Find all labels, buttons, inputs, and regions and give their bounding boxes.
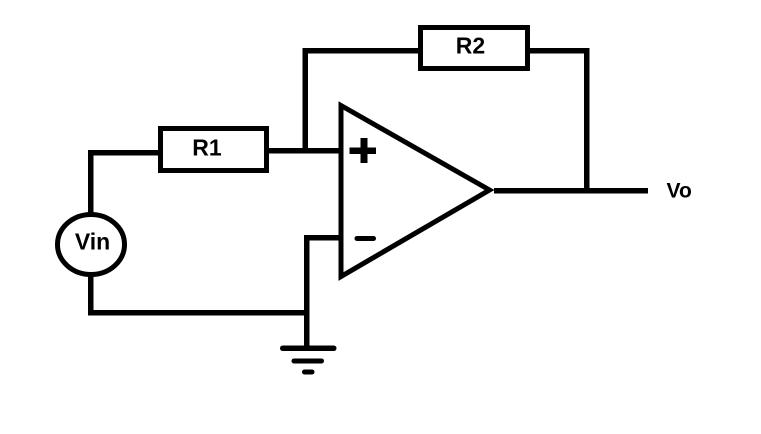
op-amp + input pin symbol <box>350 138 377 163</box>
wire: Vin top vertical (Vin to R1 input wire) <box>88 150 94 215</box>
wire: feedback right vertical (R2 down to output node) <box>584 48 590 193</box>
wire: horizontal Vin to R1 left terminal <box>88 150 161 156</box>
svg-text:R2: R2 <box>456 33 485 59</box>
wire: horizontal R1 right terminal to op-amp + input <box>266 148 341 154</box>
voltage source Vin <box>58 215 125 275</box>
svg-text:Vin: Vin <box>75 229 110 255</box>
svg-text:Vo: Vo <box>667 180 692 203</box>
wire: inverting input horizontal (ground net to op-amp - input) <box>304 235 341 241</box>
ground <box>280 346 337 375</box>
resistor R2 <box>421 28 528 69</box>
resistor R1 <box>161 129 267 171</box>
wire: top horizontal from R2 right terminal to right feedback vertical <box>527 48 590 54</box>
wire: top horizontal from feedback node to R2 left terminal <box>303 48 421 54</box>
svg-text:R1: R1 <box>192 135 222 161</box>
op-amp U1 (triangle) <box>341 106 490 277</box>
wire: ground vertical (inverting node down to ground symbol) <box>304 235 310 349</box>
wire: Vin bottom vertical <box>88 274 94 316</box>
wire: feedback left vertical (node between R1 and R2, down to + input wire) <box>303 48 309 154</box>
wire: bottom horizontal (Vin bottom to ground vertical) <box>88 310 310 316</box>
wire: output horizontal (op-amp output to Vo) <box>494 188 648 194</box>
op-amp - input pin symbol <box>355 236 377 241</box>
